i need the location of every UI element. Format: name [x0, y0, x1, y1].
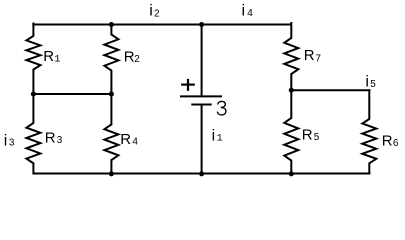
svg-text:R: R — [43, 48, 54, 65]
svg-text:4: 4 — [247, 8, 253, 19]
svg-text:2: 2 — [154, 8, 160, 19]
svg-text:3: 3 — [9, 137, 15, 148]
svg-text:R: R — [382, 132, 393, 149]
svg-text:i: i — [212, 127, 216, 144]
svg-text:i: i — [242, 3, 246, 20]
svg-text:i: i — [365, 73, 369, 90]
svg-text:6: 6 — [393, 138, 399, 149]
svg-text:5: 5 — [370, 79, 376, 90]
svg-text:3: 3 — [57, 135, 63, 146]
svg-text:5: 5 — [314, 132, 320, 143]
svg-text:1: 1 — [54, 55, 60, 66]
svg-text:2: 2 — [134, 54, 140, 65]
svg-text:R: R — [124, 48, 135, 65]
svg-text:i: i — [4, 132, 8, 149]
svg-text:R: R — [120, 131, 131, 148]
svg-text:R: R — [304, 47, 315, 64]
svg-text:R: R — [302, 127, 313, 144]
svg-text:4: 4 — [132, 136, 138, 147]
svg-text:R: R — [45, 130, 56, 147]
svg-text:i: i — [149, 3, 153, 20]
svg-text:1: 1 — [217, 133, 223, 144]
svg-text:7: 7 — [315, 53, 321, 64]
